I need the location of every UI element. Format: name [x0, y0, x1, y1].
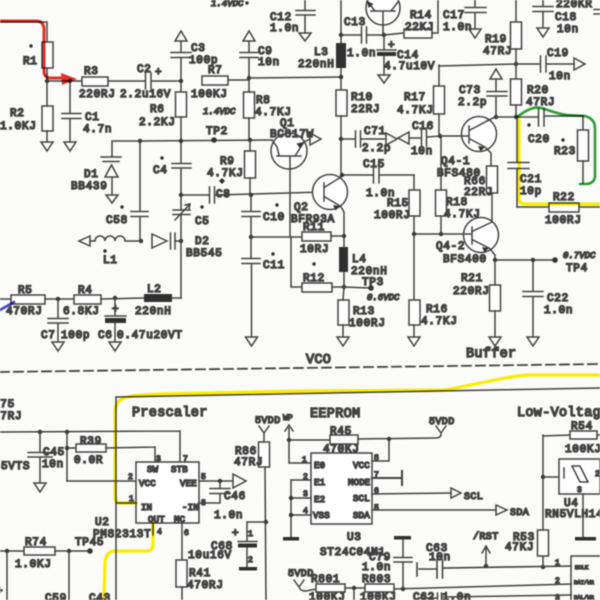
svg-text:R8: R8	[256, 95, 271, 107]
svg-text:47RJ: 47RJ	[483, 46, 512, 58]
svg-text:R45: R45	[330, 426, 352, 438]
ground below R16	[408, 337, 420, 346]
svg-text:R14: R14	[410, 10, 432, 22]
svg-text:4.7KJ: 4.7KJ	[207, 168, 244, 180]
dashed separator	[0, 364, 600, 372]
svg-text:R4: R4	[78, 285, 93, 297]
IC U5 box bottom right	[555, 556, 600, 600]
power arrow above C3	[175, 31, 187, 52]
svg-text:1.0KJ: 1.0KJ	[0, 121, 37, 133]
labels C59 C43	[45, 593, 111, 600]
wire input top-left	[0, 22, 47, 42]
svg-text:SDA: SDA	[353, 511, 370, 521]
svg-text:22KJ: 22KJ	[405, 22, 434, 34]
resistor R22	[517, 192, 600, 227]
capacitor C62	[413, 592, 571, 600]
svg-text:2.2u16V: 2.2u16V	[120, 89, 171, 101]
svg-text:SDA: SDA	[510, 508, 529, 519]
svg-text:D1: D1	[84, 169, 99, 181]
svg-text:C22: C22	[547, 293, 569, 305]
svg-text:BB439: BB439	[71, 181, 108, 193]
svg-text:10n: 10n	[557, 24, 579, 36]
resistor R66	[464, 166, 498, 223]
svg-text:0.6VDC: 0.6VDC	[367, 293, 400, 303]
resistor R86	[234, 442, 270, 600]
svg-text:L2: L2	[147, 284, 162, 296]
resistor R41	[176, 523, 224, 600]
svg-text:Prescaler: Prescaler	[132, 406, 208, 421]
svg-text:BFS400: BFS400	[443, 254, 487, 266]
svg-text:100p: 100p	[61, 330, 90, 342]
ground below C18	[537, 28, 549, 37]
capacitor C73	[458, 85, 507, 119]
svg-text:1: 1	[555, 559, 560, 568]
arrow C71 out	[386, 133, 397, 145]
pin numbers U3	[303, 454, 379, 516]
IC U2 box	[136, 462, 199, 525]
svg-text:R12: R12	[303, 273, 325, 285]
svg-text:100KJ: 100KJ	[309, 592, 346, 600]
svg-text:SCL: SCL	[353, 494, 370, 504]
svg-text:1.0n: 1.0n	[362, 562, 391, 574]
svg-text:10n: 10n	[42, 459, 64, 471]
svg-text:U2: U2	[95, 517, 110, 529]
svg-text:SCL: SCL	[464, 492, 483, 503]
wire U2 VEE out	[199, 479, 232, 483]
svg-text:/RST: /RST	[473, 531, 499, 543]
svg-text:R22: R22	[553, 192, 575, 204]
resistor R53	[505, 435, 549, 567]
svg-text:E1: E1	[314, 478, 325, 488]
ground below C7	[52, 342, 64, 351]
resistor R7	[191, 65, 249, 101]
capacitor C9	[240, 46, 280, 80]
wire down to L2 row	[180, 241, 182, 298]
svg-text:1.0n: 1.0n	[443, 22, 472, 34]
wires U3 ground pins	[289, 480, 311, 537]
svg-text:D2: D2	[195, 236, 210, 248]
svg-text:E2: E2	[314, 495, 325, 505]
resistor R17	[397, 65, 445, 136]
pin numbers U2	[129, 455, 206, 538]
svg-text:C3: C3	[191, 43, 206, 55]
svg-text:220nH: 220nH	[298, 59, 335, 71]
capacitor C6 electrolytic	[98, 298, 183, 342]
wire collector node row	[496, 116, 538, 118]
svg-text:+: +	[388, 40, 395, 52]
svg-text:TP2: TP2	[206, 126, 228, 138]
wire rail to L3	[249, 77, 341, 78]
svg-text:TP3: TP3	[362, 277, 384, 289]
svg-text:DAT/WR: DAT/WR	[574, 579, 595, 586]
resistor R801	[309, 574, 365, 600]
transistor Q4-1	[437, 117, 497, 181]
svg-text:10n: 10n	[429, 552, 451, 564]
svg-text:VCC: VCC	[139, 479, 156, 489]
capacitor C12	[270, 0, 315, 35]
svg-text:R23: R23	[554, 146, 576, 158]
svg-text:L1: L1	[103, 255, 118, 267]
svg-text:Q4-1: Q4-1	[441, 156, 470, 168]
capacitor edge right	[594, 10, 600, 15]
svg-text:3: 3	[555, 594, 560, 600]
arrow C16 in	[398, 132, 420, 144]
diode D2 varactor	[152, 233, 223, 260]
svg-text:100KJ: 100KJ	[191, 89, 228, 101]
testpoint TP2	[206, 126, 228, 143]
wire red trace top-left	[0, 21, 77, 85]
svg-text:C8: C8	[216, 189, 231, 201]
svg-text:7: 7	[183, 455, 188, 464]
resistor R54	[543, 421, 600, 456]
resistor R4	[63, 285, 144, 318]
node rail Q1 base	[138, 138, 272, 143]
svg-text:5: 5	[374, 504, 379, 513]
svg-text:C73: C73	[459, 85, 481, 97]
svg-text:C17: C17	[443, 10, 465, 22]
power 5VDD terminal R86	[255, 416, 281, 442]
resistor R16	[409, 234, 458, 336]
svg-text:MODE: MODE	[348, 478, 370, 488]
capacitor C3	[171, 43, 218, 92]
svg-text:3: 3	[156, 455, 161, 464]
wire U3 MODE pin7	[372, 471, 402, 485]
capacitor C21	[508, 117, 542, 207]
svg-text:Q2: Q2	[294, 202, 309, 214]
svg-text:C15: C15	[363, 159, 385, 171]
svg-text:C6: C6	[98, 330, 113, 342]
svg-text:47KJ: 47KJ	[505, 542, 534, 554]
ground bar below C68	[239, 567, 257, 571]
wire U4 pin3 ground	[582, 494, 584, 537]
transistor Q4-2	[436, 218, 499, 267]
svg-text:R10: R10	[351, 92, 373, 104]
capacitor C68 electrolytic	[188, 522, 266, 567]
capacitor C8	[181, 178, 323, 203]
svg-text:Buffer: Buffer	[466, 347, 516, 362]
resistor R45	[289, 426, 441, 456]
svg-text:22RJ: 22RJ	[351, 104, 380, 116]
ground below C1	[64, 142, 76, 151]
svg-text:10RJ: 10RJ	[300, 244, 329, 256]
svg-text:6.8KJ: 6.8KJ	[63, 306, 100, 318]
ground below C17	[469, 29, 481, 38]
svg-text:4.7u10V: 4.7u10V	[384, 61, 435, 73]
svg-text:10n: 10n	[258, 57, 280, 69]
resistor R23	[554, 116, 589, 183]
svg-text:C4: C4	[153, 165, 168, 177]
svg-text:100RJ: 100RJ	[374, 210, 411, 222]
svg-text:1.0n: 1.0n	[270, 23, 299, 35]
ground below C11	[246, 337, 258, 346]
svg-text:C11: C11	[263, 260, 285, 272]
arrow SCL	[451, 488, 483, 503]
capacitor C79	[362, 540, 412, 591]
capacitor C4	[153, 156, 191, 209]
svg-text:R75: R75	[0, 399, 15, 411]
svg-text:VEE: VEE	[180, 479, 197, 489]
capacitor C45	[1, 432, 65, 482]
svg-text:C7: C7	[41, 330, 56, 342]
wire D1 branch	[112, 141, 140, 156]
capacitor C13	[341, 17, 386, 60]
svg-text:0.47u20VT: 0.47u20VT	[117, 330, 183, 342]
capacitor C17	[443, 0, 486, 34]
svg-text:E0: E0	[314, 461, 325, 471]
label U4 RN5VLH14	[545, 498, 600, 521]
svg-text:RN5VLH14: RN5VLH14	[545, 509, 600, 521]
svg-text:+: +	[232, 528, 239, 540]
resistor R15	[374, 175, 420, 234]
capacitor C58	[106, 141, 148, 241]
svg-text:VCC: VCC	[353, 461, 370, 471]
resistor R20	[511, 79, 556, 119]
transistor Q1	[270, 118, 314, 169]
svg-text:1.4VDC: 1.4VDC	[211, 0, 244, 9]
svg-text:2: 2	[555, 577, 560, 586]
svg-text:C59: C59	[45, 593, 67, 600]
capacitor C14 electrolytic	[377, 35, 435, 74]
svg-text:5VTS: 5VTS	[1, 461, 30, 473]
power 5VDD terminal bottom	[288, 569, 316, 591]
svg-text:+: +	[155, 67, 162, 79]
resistor R13	[338, 287, 386, 336]
svg-text:BAL/WR: BAL/WR	[574, 594, 595, 600]
ground below C6	[109, 342, 121, 351]
transistor Q3 top	[366, 0, 400, 35]
capacitor C2 electrolytic	[120, 64, 181, 101]
capacitor C15	[340, 159, 414, 200]
wire U4 pin1	[543, 476, 559, 478]
resistor R19	[483, 0, 522, 79]
wire yellow trace right column	[519, 119, 600, 204]
IC U4 box	[559, 459, 600, 495]
svg-text:C10: C10	[263, 212, 285, 224]
svg-text:R16: R16	[426, 304, 448, 316]
svg-text:Low-Voltage: Low-Voltage	[517, 406, 600, 421]
resistor R6	[139, 92, 187, 163]
resistor R9	[207, 140, 256, 197]
svg-text:Q4-2: Q4-2	[436, 241, 465, 253]
svg-text:R6: R6	[150, 104, 165, 116]
node L1/D2 row	[139, 239, 183, 243]
ground below C12	[299, 33, 311, 41]
svg-text:2: 2	[595, 470, 600, 479]
ground below R2	[41, 142, 53, 151]
wire U2 OUT stub	[152, 523, 154, 535]
wire U3 SDA pin5	[372, 509, 496, 511]
svg-text:0.0R: 0.0R	[74, 455, 103, 467]
svg-text:100RJ: 100RJ	[545, 215, 582, 227]
transistor Q2	[291, 175, 348, 237]
ground bar below U3 pins	[283, 537, 299, 541]
svg-text:+: +	[112, 304, 119, 316]
wire Q4-1 collector	[487, 117, 495, 121]
resistor R10	[336, 90, 380, 175]
inductor L1	[90, 236, 141, 267]
svg-text:MC: MC	[174, 515, 186, 525]
ground below C14	[378, 75, 390, 83]
svg-text:1.0n: 1.0n	[214, 510, 243, 522]
svg-text:R74: R74	[25, 537, 47, 549]
svg-text:VCO: VCO	[306, 353, 331, 368]
ground below R21	[489, 337, 501, 346]
resistor R39	[65, 432, 155, 481]
testpoint TP4	[552, 251, 596, 275]
svg-text:R9: R9	[220, 156, 235, 168]
ground bar above C79	[394, 536, 411, 540]
svg-text:1: 1	[248, 530, 253, 539]
svg-text:C2: C2	[137, 64, 152, 76]
svg-text:47RJ: 47RJ	[0, 411, 22, 423]
svg-text:4.7KJ: 4.7KJ	[397, 105, 434, 117]
svg-text:6: 6	[184, 529, 189, 538]
resistor R21	[453, 260, 501, 336]
title Prescaler	[132, 406, 208, 421]
capacitor C19	[516, 48, 574, 83]
svg-text:2: 2	[128, 473, 133, 482]
svg-text:R3: R3	[84, 66, 99, 78]
wire rail y65	[439, 64, 516, 66]
svg-text:C43: C43	[89, 593, 111, 600]
wire green trace buffer output	[517, 107, 595, 184]
wire WP to U3 pin1	[289, 440, 311, 465]
svg-text:R41: R41	[189, 568, 211, 580]
svg-text:R803: R803	[362, 574, 391, 586]
svg-text:2.2p: 2.2p	[458, 97, 487, 109]
svg-text:10n: 10n	[411, 146, 433, 158]
svg-text:5VDD: 5VDD	[429, 417, 455, 428]
capacitor C46	[199, 481, 246, 522]
power arrow above C73	[490, 69, 502, 91]
svg-text:C58: C58	[106, 215, 128, 227]
svg-text:220RJ: 220RJ	[79, 89, 116, 101]
svg-text:22RJ: 22RJ	[464, 187, 493, 199]
wire yellow trace U2 out	[104, 523, 153, 600]
wire U2 VCC pin2	[67, 473, 136, 482]
svg-text:WP: WP	[283, 414, 293, 423]
capacitor C71	[341, 126, 391, 155]
resistor R74 row	[0, 537, 87, 571]
arrow Q1 collector out	[310, 133, 321, 145]
capacitor C63	[417, 543, 571, 578]
note 1.4VDC top	[211, 0, 249, 9]
wire U2 IN pin1	[116, 502, 136, 504]
capacitor C22	[523, 260, 573, 336]
svg-text:1.0KJ: 1.0KJ	[15, 559, 52, 571]
ground below R13	[337, 337, 349, 346]
svg-text:TP4: TP4	[566, 263, 588, 275]
svg-text:R15: R15	[387, 198, 409, 210]
capacitor C16	[411, 121, 442, 158]
testpoint TP45	[75, 537, 104, 554]
inductor L2	[135, 284, 181, 318]
svg-text:STB: STB	[171, 465, 188, 475]
svg-text:4: 4	[157, 528, 162, 537]
svg-text:470RJ: 470RJ	[187, 580, 224, 592]
svg-text:4.7KJ: 4.7KJ	[421, 316, 458, 328]
ground below D1	[106, 195, 118, 203]
arrow left of L1	[79, 236, 90, 246]
resistor R2	[0, 81, 53, 141]
title Low-Voltage	[517, 406, 600, 421]
svg-text:2.2KJ: 2.2KJ	[139, 117, 176, 129]
svg-text:5VDD: 5VDD	[288, 569, 314, 580]
wire stub below junctions	[0, 551, 69, 600]
svg-text:10p: 10p	[520, 186, 542, 198]
label U3 ST24C04M1	[320, 532, 386, 559]
svg-text:100RJ: 100RJ	[349, 318, 386, 330]
svg-text:100KJ: 100KJ	[360, 592, 397, 600]
wire Q4-2 base row	[412, 232, 464, 236]
resistor R803	[360, 574, 571, 600]
inductor L3	[298, 43, 346, 90]
capacitor C10	[242, 195, 285, 239]
power arrow above C9	[243, 31, 255, 52]
wire to R12	[291, 237, 302, 287]
board outline box	[116, 388, 600, 600]
ground bar below U4	[575, 537, 596, 541]
svg-text:47RJ: 47RJ	[234, 457, 263, 469]
svg-text:C1: C1	[85, 112, 100, 124]
svg-text:R801: R801	[311, 574, 340, 586]
svg-text:1.0n: 1.0n	[544, 305, 573, 317]
capacitor C20	[527, 109, 583, 146]
label 220KR top right	[556, 0, 593, 11]
resistor R1	[23, 42, 53, 68]
svg-text:R17: R17	[404, 92, 426, 104]
svg-text:C45: C45	[43, 447, 65, 459]
svg-text:U3: U3	[347, 532, 362, 544]
label U2 PM82313T	[93, 517, 151, 541]
wire blue trace left edge	[0, 302, 14, 310]
wire rail VCC left	[0, 430, 180, 462]
svg-text:OUT: OUT	[148, 515, 165, 525]
testpoint TP3	[344, 277, 400, 303]
svg-text:R20: R20	[527, 85, 549, 97]
IC U3 box	[311, 453, 372, 524]
svg-text:R1: R1	[23, 56, 38, 68]
svg-text:10n: 10n	[549, 71, 571, 83]
svg-text:C20: C20	[528, 134, 550, 146]
resistor R14	[384, 0, 438, 38]
svg-text:470RJ: 470RJ	[6, 306, 43, 318]
svg-text:2: 2	[248, 556, 253, 565]
node TP4 row	[493, 258, 553, 262]
capacitor C11	[242, 237, 285, 336]
svg-text:-IN: -IN	[182, 503, 199, 513]
capacitor C18	[533, 0, 579, 36]
labels R75 edge	[0, 399, 22, 423]
svg-text:1.0n: 1.0n	[347, 48, 376, 60]
arrow SDA	[496, 505, 529, 519]
arrow VEE out	[233, 474, 246, 488]
power 5VDD terminal right	[429, 417, 455, 435]
svg-text:BC817W: BC817W	[270, 129, 314, 141]
svg-text:IN: IN	[141, 503, 152, 513]
svg-text:100KJ: 100KJ	[565, 444, 600, 456]
svg-text:BFR93A: BFR93A	[291, 214, 335, 226]
svg-text:1.4VDC: 1.4VDC	[203, 107, 236, 117]
svg-text:C71: C71	[364, 126, 386, 138]
svg-text:C21: C21	[520, 174, 542, 186]
net /RST arrow	[473, 531, 499, 566]
svg-text:C46: C46	[224, 491, 246, 503]
wire node below R1	[45, 68, 82, 83]
title VCO	[306, 353, 331, 368]
capacitor C5 variable	[173, 204, 210, 241]
capacitor C7	[41, 299, 90, 342]
